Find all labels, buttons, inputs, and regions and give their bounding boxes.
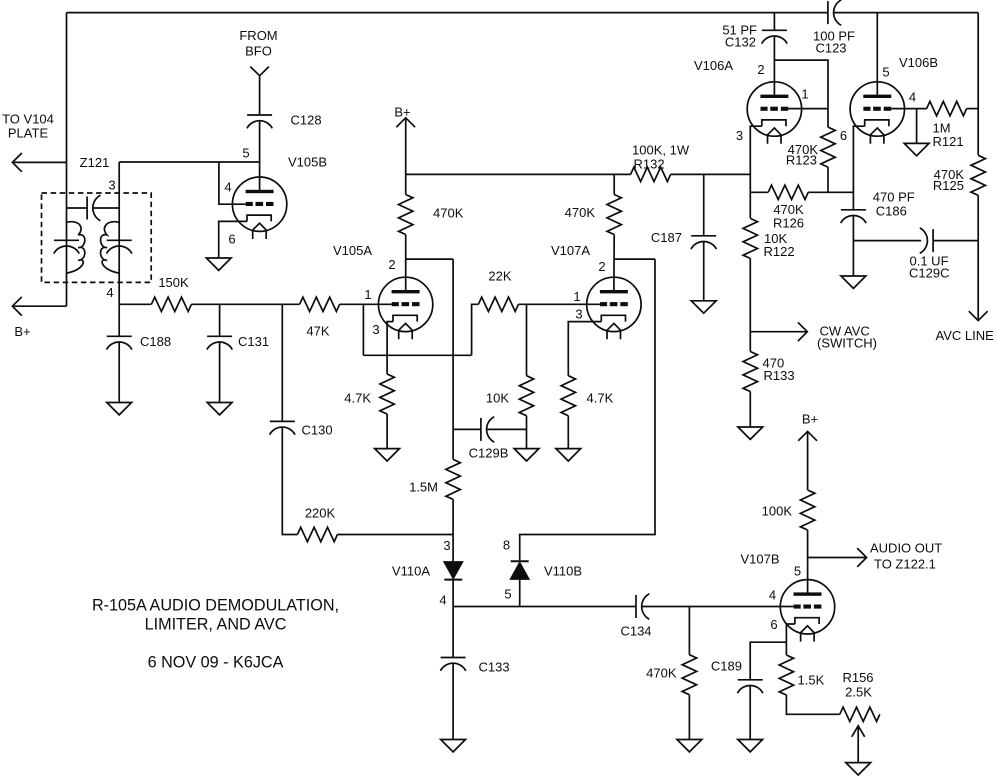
wire C132 to V106A plate <box>773 36 775 97</box>
svg-text:V107B: V107B <box>741 552 780 567</box>
svg-text:B+: B+ <box>14 324 30 339</box>
svg-text:4: 4 <box>439 593 446 608</box>
svg-text:470K: 470K <box>433 206 464 221</box>
svg-text:220K: 220K <box>305 506 336 521</box>
svg-text:LIMITER, AND AVC: LIMITER, AND AVC <box>145 616 287 634</box>
wire R123 to R126 bus <box>827 167 829 192</box>
wire C186 to ground with C129C tap <box>852 216 854 277</box>
svg-text:TO Z122.1: TO Z122.1 <box>874 557 936 572</box>
svg-text:1: 1 <box>573 289 580 304</box>
wire junction to V110A anode <box>452 535 454 563</box>
capacitor C131 <box>207 336 232 349</box>
svg-text:4: 4 <box>224 180 231 195</box>
svg-text:C129B: C129B <box>469 446 509 461</box>
resistor 4.7K (V107A cathode) <box>561 376 575 416</box>
B+ arrow for limiter plates <box>396 118 415 195</box>
resistor R123 470K <box>821 127 835 167</box>
tube V107B <box>780 580 834 642</box>
capacitor C188 <box>107 336 132 349</box>
ground V106B grid divider <box>904 143 929 155</box>
wire C131 drop <box>219 304 221 336</box>
capacitor C123 (100 PF, series in top bus) <box>828 0 841 25</box>
resistor 470K (V105A plate load) <box>399 195 413 235</box>
wire audio node 4 bus <box>453 606 636 608</box>
svg-text:R123: R123 <box>786 153 817 168</box>
svg-text:B+: B+ <box>802 412 818 427</box>
wire V106A grid-plate loop <box>774 60 828 127</box>
svg-text:6: 6 <box>770 617 777 632</box>
svg-text:3: 3 <box>443 538 450 553</box>
wire 470K to ground <box>688 695 690 740</box>
wire Z121 pin3 to V105B <box>119 161 259 163</box>
svg-text:6 NOV 09 - K6JCA: 6 NOV 09 - K6JCA <box>148 654 284 672</box>
wire C129C to right rail <box>933 240 978 242</box>
wire V105A cathode jog <box>387 322 393 374</box>
wire V105A grid box left <box>362 304 364 355</box>
capacitor C133 <box>440 658 465 671</box>
svg-text:C188: C188 <box>140 334 171 349</box>
wire C188 to ground <box>118 342 120 403</box>
wire 470K V107A from rail <box>613 174 615 194</box>
svg-text:V106A: V106A <box>694 58 733 73</box>
wire C134 to V107B grid <box>642 606 794 608</box>
wire Z121 coupling link right <box>93 207 119 209</box>
label schematic title <box>92 597 339 672</box>
wire V110B cathode to V107A plate loop <box>520 259 655 561</box>
wire C187 to ground <box>703 242 705 301</box>
wire V105B cathode (pin 6) to ground <box>219 221 247 258</box>
wire 470K audio load drop <box>688 607 690 655</box>
svg-text:C123: C123 <box>815 41 846 56</box>
transformer Z121 dashed box <box>42 193 152 282</box>
svg-text:C187: C187 <box>651 230 682 245</box>
ground C187 <box>691 301 716 313</box>
wire 10K to ground with C129B tap <box>526 416 528 449</box>
svg-text:3: 3 <box>108 178 115 193</box>
svg-text:C189: C189 <box>711 659 742 674</box>
svg-text:470K: 470K <box>646 666 677 681</box>
svg-text:3: 3 <box>372 322 379 337</box>
wire C130 drop from grid line <box>281 304 283 421</box>
svg-text:4.7K: 4.7K <box>587 391 614 406</box>
ground C186 <box>841 276 866 288</box>
wire 1.5K to R156 <box>786 695 839 714</box>
ground 4.7K V107A <box>556 449 581 461</box>
svg-text:BFO: BFO <box>245 44 272 59</box>
wire R126 left stub <box>750 191 768 193</box>
wire V106A grid (pin 1) <box>788 108 828 110</box>
svg-text:8: 8 <box>503 538 510 553</box>
resistor 4.7K (V105A cathode) <box>380 374 394 414</box>
capacitor C130 <box>270 421 295 434</box>
svg-text:V106B: V106B <box>899 55 938 70</box>
capacitor C132 51PF <box>762 30 787 43</box>
wire R156 wiper arrow to ground <box>852 726 865 763</box>
tube V107A <box>587 277 641 339</box>
wire V107A plate loop top <box>614 258 655 260</box>
resistor 22K <box>478 297 518 311</box>
capacitor C189 <box>738 680 763 693</box>
svg-text:1: 1 <box>364 287 371 302</box>
capacitor Z121 primary tuning cap <box>54 240 79 253</box>
wire V110B anode to audio bus <box>519 579 521 607</box>
svg-text:V105B: V105B <box>288 155 327 170</box>
svg-text:R126: R126 <box>773 216 804 231</box>
svg-text:R125: R125 <box>933 178 964 193</box>
svg-text:4: 4 <box>106 285 113 300</box>
wire C130 to 220K corner <box>282 427 297 534</box>
wire grid ground drop <box>916 109 918 144</box>
wire 47K to V105A grid <box>340 303 392 305</box>
svg-text:FROM: FROM <box>239 28 277 43</box>
wire AUDIO OUT stub <box>808 557 867 559</box>
wire 470K to V105A plate <box>405 235 407 293</box>
svg-text:1.5M: 1.5M <box>409 480 438 495</box>
diode V110B <box>511 563 529 579</box>
capacitor C186 470PF <box>841 210 866 223</box>
svg-text:1: 1 <box>801 87 808 102</box>
wire right rail to AVC LINE arrow <box>977 241 979 321</box>
svg-text:AVC LINE: AVC LINE <box>936 328 995 343</box>
wire C189 to ground <box>749 686 751 740</box>
wire 4.7K to ground <box>386 414 388 449</box>
ground 470K audio <box>677 740 702 752</box>
svg-text:22K: 22K <box>488 269 511 284</box>
svg-text:1.5K: 1.5K <box>798 673 825 688</box>
arrow AVC LINE <box>969 311 988 320</box>
svg-text:470K: 470K <box>565 205 596 220</box>
capacitor Z121 secondary tuning cap <box>107 240 132 253</box>
wire 220K to 1.5M junction <box>337 534 453 536</box>
svg-text:C129C: C129C <box>909 266 949 281</box>
wire V107A cathode jog <box>568 322 601 376</box>
wire V105A grid box bottom <box>363 354 471 356</box>
ground C133 <box>441 740 466 752</box>
svg-text:R132: R132 <box>634 157 665 172</box>
diode V110A <box>444 562 462 578</box>
resistor 470K (audio load) <box>682 655 696 695</box>
wire Z121 pin4 to 150K <box>119 303 151 305</box>
svg-text:47K: 47K <box>306 324 329 339</box>
wire C129B right <box>487 428 527 430</box>
wire V105A plate loop down to C129B node <box>452 259 454 459</box>
svg-text:(SWITCH): (SWITCH) <box>817 336 877 351</box>
wire TO V104 PLATE stub <box>12 161 66 163</box>
tube V105A <box>378 277 432 339</box>
svg-text:C134: C134 <box>620 624 651 639</box>
svg-text:6: 6 <box>228 232 235 247</box>
svg-text:100K: 100K <box>762 504 793 519</box>
ground C131 <box>207 403 232 415</box>
resistor R122 10K <box>743 218 757 258</box>
ground 10K <box>514 449 539 461</box>
resistor 470K (V107A plate load) <box>607 195 621 235</box>
wire R132 to V106A cathode node <box>671 173 751 175</box>
wire V106B cathode jog down <box>853 126 864 210</box>
tube V106A <box>747 82 801 144</box>
wire 100K to V107B plate <box>807 530 809 594</box>
wire V105B grid jog (pin 4) <box>219 162 246 204</box>
svg-text:PLATE: PLATE <box>8 126 49 141</box>
svg-text:6: 6 <box>840 128 847 143</box>
wire left rail <box>66 13 68 307</box>
capacitor C133 drop <box>452 607 454 658</box>
ground 4.7K V105A <box>375 449 400 461</box>
ground C189 <box>738 740 763 752</box>
resistor 10K (V107A grid) <box>519 376 533 416</box>
svg-text:2.5K: 2.5K <box>845 685 872 700</box>
transformer Z121 secondary winding <box>101 222 120 273</box>
ground R156 wiper <box>846 763 871 775</box>
wire B+ rail to R132 <box>406 173 631 175</box>
wire C129B left <box>453 428 481 430</box>
svg-text:C131: C131 <box>238 334 269 349</box>
svg-text:R156: R156 <box>842 670 873 685</box>
svg-text:4.7K: 4.7K <box>344 391 371 406</box>
tube V106B <box>850 82 904 144</box>
capacitor C187 drop <box>703 174 705 235</box>
svg-text:V110B: V110B <box>544 564 582 579</box>
wire V107B cathode jog <box>786 624 795 655</box>
wire V105A plate loop top <box>406 258 454 260</box>
svg-text:470 PF: 470 PF <box>873 190 915 205</box>
ground C188 <box>107 403 132 415</box>
svg-text:B+: B+ <box>394 105 410 120</box>
svg-text:V107A: V107A <box>551 243 590 258</box>
wire V110A cathode to node 4 <box>452 580 454 607</box>
wire 1.5M to 220K junction <box>452 499 454 534</box>
svg-text:R133: R133 <box>764 368 795 383</box>
svg-text:5: 5 <box>242 146 249 161</box>
svg-text:100K, 1W: 100K, 1W <box>632 143 690 158</box>
capacitor C132 drop from top bus <box>773 13 775 31</box>
svg-text:5: 5 <box>504 587 511 602</box>
svg-text:2: 2 <box>388 257 395 272</box>
wire C131 to ground <box>219 342 221 403</box>
wire Z121 coupling link left <box>67 207 87 209</box>
svg-text:V105A: V105A <box>333 243 372 258</box>
wire Z121 secondary vertical (pin 3 to pin 4) <box>118 162 120 304</box>
svg-text:2: 2 <box>598 259 605 274</box>
resistor R121 1M <box>927 101 967 115</box>
svg-text:C128: C128 <box>291 113 322 128</box>
wire V105A grid box right <box>472 304 479 355</box>
wire 470K to V107A plate <box>613 235 615 293</box>
svg-text:C186: C186 <box>876 204 907 219</box>
resistor 220K <box>297 527 337 541</box>
resistor R125 470K <box>971 155 985 195</box>
capacitor C129B <box>481 417 494 442</box>
capacitor Z121 coupling cap <box>87 195 100 220</box>
wire V106B plate drop from top bus <box>876 13 878 97</box>
svg-text:10K: 10K <box>486 391 509 406</box>
capacitor C187 <box>691 236 716 249</box>
arrow CW AVC <box>798 322 807 341</box>
resistor 150K <box>151 297 191 311</box>
svg-text:Z121: Z121 <box>80 155 110 170</box>
svg-text:V110A: V110A <box>392 564 430 579</box>
svg-text:C132: C132 <box>725 35 756 50</box>
resistor R133 470 <box>743 352 757 392</box>
arrow AUDIO OUT <box>857 548 866 567</box>
capacitor C129C 0.1UF (mirrored) <box>920 228 933 253</box>
wire right rail upper <box>977 13 979 156</box>
resistor 1.5M <box>446 459 460 499</box>
svg-text:3: 3 <box>575 307 582 322</box>
svg-text:R-105A AUDIO DEMODULATION,: R-105A AUDIO DEMODULATION, <box>92 597 339 615</box>
svg-text:4: 4 <box>909 90 916 105</box>
wire R121 to right rail <box>967 108 979 110</box>
resistor 1.5K (V107B cathode) <box>779 655 793 695</box>
resistor R132 100K 1W <box>631 167 671 181</box>
svg-text:TO V104: TO V104 <box>2 112 54 127</box>
wire C128 to V105B plate <box>259 121 261 192</box>
wire R133 to ground <box>749 392 751 428</box>
wire C133 to ground <box>452 663 454 739</box>
svg-text:C130: C130 <box>302 423 333 438</box>
wire V106B grid to R121 <box>891 108 926 110</box>
wire R126 to V106B cathode line <box>808 191 853 193</box>
svg-text:2: 2 <box>757 62 764 77</box>
svg-text:R122: R122 <box>764 244 795 259</box>
wire top bus from left rail to C123 <box>67 12 828 14</box>
capacitor C128 <box>247 115 272 128</box>
B+ arrow for V107B <box>798 431 817 490</box>
wire 4.7K to ground <box>567 416 569 449</box>
wire 10K drop <box>526 304 528 375</box>
arrow to B+ lower-left <box>12 297 21 316</box>
wire 22K to V107A grid <box>518 303 600 305</box>
transformer Z121 primary winding <box>67 222 85 273</box>
svg-text:5: 5 <box>794 564 801 579</box>
wire C186 node to C129C <box>853 240 921 242</box>
ground R133 <box>738 427 763 439</box>
op-amp none; tube V105B <box>232 177 286 239</box>
wire 150K to 47K with taps <box>191 303 299 305</box>
wire R122 to CW AVC node <box>749 258 751 351</box>
svg-text:AUDIO OUT: AUDIO OUT <box>870 541 942 556</box>
arrow to V104 plate <box>12 153 21 172</box>
wire top bus from C123 to right rail <box>834 12 979 14</box>
resistor 100K (V107B plate load) <box>800 490 814 530</box>
svg-text:C133: C133 <box>479 660 510 675</box>
svg-text:R121: R121 <box>933 134 964 149</box>
resistor R156 2.5K pot <box>840 707 880 721</box>
svg-text:150K: 150K <box>158 275 189 290</box>
capacitor C134 left wire handled by bus; capacitor C134 <box>636 594 649 619</box>
capacitor C188 drop <box>118 304 120 336</box>
wire B+ lower-left stub <box>12 305 66 307</box>
wire C189 branch <box>750 642 786 680</box>
antenna FROM BFO <box>250 67 269 115</box>
wire V106A cathode jog down <box>750 126 762 218</box>
resistor 47K <box>300 297 340 311</box>
wire CW AVC stub <box>750 331 807 333</box>
wire R125 to C129C node <box>977 195 979 240</box>
svg-text:5: 5 <box>882 65 889 80</box>
ground V105B cathode <box>206 258 231 270</box>
svg-text:3: 3 <box>736 128 743 143</box>
resistor R126 470K <box>768 185 808 199</box>
svg-text:4: 4 <box>769 588 776 603</box>
